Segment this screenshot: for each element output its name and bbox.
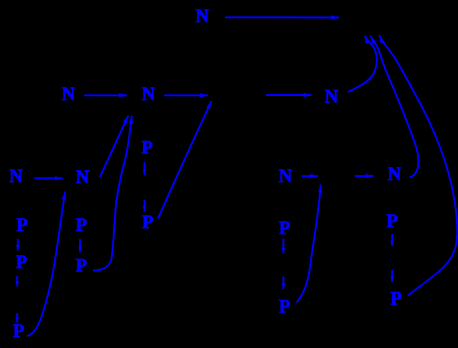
svg-text:N: N	[388, 165, 402, 185]
svg-text:N: N	[9, 167, 23, 187]
svg-text:P: P	[76, 257, 87, 277]
arrow junction to N4	[266, 94, 312, 96]
dashed arrow P8 down (upper segment)	[282, 239, 284, 254]
curve from N4 up to top-right node	[348, 36, 377, 93]
svg-text:P: P	[17, 216, 28, 236]
dashed arrow P3 to P4	[17, 239, 19, 251]
svg-text:N: N	[62, 85, 76, 105]
dashed arrow P4 down (upper segment)	[16, 276, 18, 287]
svg-text:P: P	[391, 290, 402, 310]
svg-text:P: P	[142, 139, 153, 159]
curve from P5 up to N6	[27, 192, 65, 337]
dashed arrow P6 to P7	[79, 239, 81, 253]
arrow from N1 to right node	[225, 16, 339, 18]
svg-text:P: P	[279, 219, 290, 239]
curve from N8 up to top-right node	[370, 36, 418, 178]
dashed arrow P4 down (lower segment)	[16, 313, 18, 323]
curve from P9 up to right junction	[297, 185, 321, 303]
svg-text:P: P	[279, 298, 290, 318]
svg-text:P: P	[16, 253, 27, 273]
line from N6 up to N3	[100, 116, 128, 178]
curve from P2 up to middle junction	[158, 101, 212, 219]
svg-text:P: P	[76, 216, 87, 236]
dashed arrow P10 down (upper segment)	[391, 234, 393, 246]
svg-text:N: N	[279, 167, 293, 187]
arrow N2 to N3	[84, 94, 127, 96]
svg-text:N: N	[325, 88, 339, 108]
svg-text:P: P	[13, 322, 24, 342]
curve from P11 up to top-right node	[379, 35, 457, 295]
dashed arrow P8 down (lower segment)	[282, 277, 284, 290]
curve from P7 up to N3	[93, 116, 132, 271]
svg-text:N: N	[196, 7, 210, 27]
arrow junction to N8	[355, 175, 374, 177]
arrow N3 to middle junction	[164, 94, 208, 96]
dashed arrow P10 down (lower segment)	[391, 270, 393, 282]
dashed arrow P1 down (lower segment)	[144, 200, 146, 212]
svg-text:N: N	[142, 85, 156, 105]
svg-text:N: N	[76, 168, 90, 188]
dashed arrow P1 down (upper segment)	[144, 162, 146, 175]
svg-text:P: P	[142, 213, 153, 233]
arrow N7 to junction	[302, 175, 319, 177]
svg-text:P: P	[387, 212, 398, 232]
arrow N5 to N6	[34, 177, 63, 179]
